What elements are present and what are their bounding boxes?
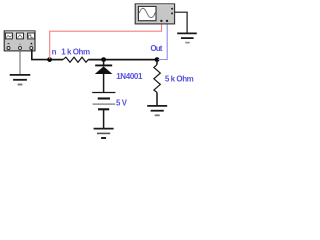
wire XSC1 ground pin to ground [175, 12, 187, 33]
label + terminal of XFG1 [30, 42, 32, 44]
resistor R2 5 k Ohm [154, 65, 160, 93]
pin + of XFG1 [30, 47, 33, 50]
battery V1 5 V [92, 93, 115, 110]
pin A of XSC1 [160, 20, 162, 22]
wire D1 anode to battery V1 [103, 74, 105, 92]
pin - of XFG1 [7, 47, 10, 50]
resistor R1 1 k Ohm [63, 57, 88, 62]
ground below R2 [147, 106, 167, 115]
pin G of XSC1 [171, 8, 173, 10]
svg-text:n: n [52, 47, 57, 56]
label - terminal of XFG1 [8, 43, 10, 45]
oscilloscope XSC1 [135, 4, 174, 24]
diode D1 1N4001 cathode bar [95, 64, 112, 66]
node diode junction [101, 57, 106, 62]
svg-text:5 k Ohm: 5 k Ohm [165, 74, 194, 83]
node out junction [155, 57, 160, 62]
ground at function generator [10, 75, 31, 85]
wire node out to R2 [156, 60, 158, 65]
wire XFG1 COM pin to ground [19, 50, 21, 75]
wire R1 to node out [88, 59, 157, 61]
wire node to D1 cathode [103, 60, 105, 65]
svg-text:5 V: 5 V [116, 99, 128, 108]
diode D1 anode triangle [95, 66, 113, 74]
wire battery V1 to ground [103, 110, 105, 128]
label COM tick of XFG1 [19, 43, 20, 45]
pin COM of XFG1 [19, 47, 22, 50]
pin B of XSC1 [166, 20, 168, 22]
svg-text:Out: Out [150, 44, 162, 53]
wire blue oscilloscope channel B to node out [158, 24, 167, 60]
svg-text:1N4001: 1N4001 [116, 72, 143, 81]
wire red node n to oscilloscope channel A [50, 24, 162, 60]
wire R2 to ground [156, 92, 158, 105]
function generator XFG1 [4, 31, 35, 51]
ground below battery V1 [94, 129, 114, 138]
ground at oscilloscope [177, 33, 197, 42]
svg-text:1 k Ohm: 1 k Ohm [61, 47, 90, 56]
wire XFG1 + pin down and right to node n [32, 50, 50, 60]
node n junction [47, 57, 52, 62]
wire node n to R1 [50, 59, 63, 61]
pin T of XSC1 [171, 12, 173, 14]
